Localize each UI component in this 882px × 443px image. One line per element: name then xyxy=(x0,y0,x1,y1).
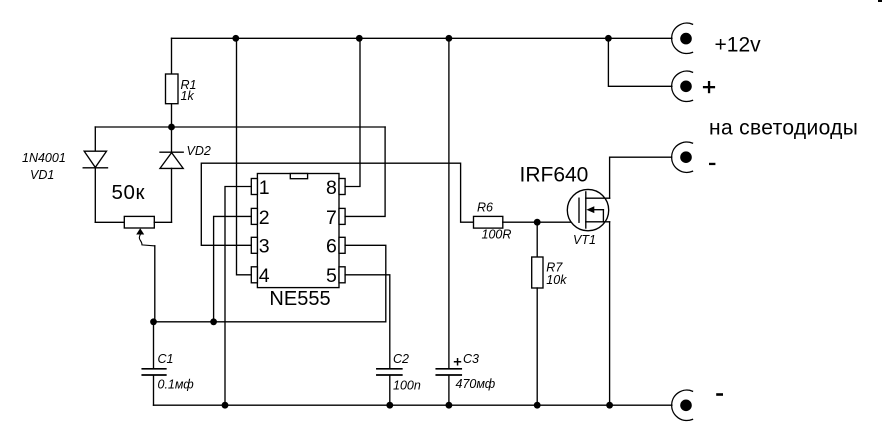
channel bar xyxy=(585,192,587,228)
svg-text:на светодиоды: на светодиоды xyxy=(709,117,858,140)
pin 4 pad xyxy=(251,267,257,283)
svg-text:5: 5 xyxy=(326,265,337,287)
label minus xyxy=(709,163,715,165)
wire +12V rail to plus LED connector xyxy=(608,38,672,86)
capacitor C2 xyxy=(377,352,421,405)
svg-text:10k: 10k xyxy=(546,273,567,287)
capacitor C3 electrolytic xyxy=(436,38,495,405)
resistor R1 xyxy=(166,38,197,127)
node junction C3 wire / rail xyxy=(446,35,453,42)
svg-text:0.1мф: 0.1мф xyxy=(158,378,195,392)
svg-text:+12v: +12v xyxy=(715,33,762,56)
wire pin4 reset to +12V rail xyxy=(237,38,252,274)
pin 1 pad xyxy=(251,179,257,195)
node junction pin1 / ground xyxy=(222,402,229,409)
node junction wiper / C1 xyxy=(150,318,157,325)
wire pin3 output to R6 xyxy=(201,163,473,245)
label minus xyxy=(716,393,723,396)
transistor VT1 IRF640 MOSFET xyxy=(520,164,610,248)
svg-text:C3: C3 xyxy=(463,352,479,366)
corner artifact mark xyxy=(878,0,882,2)
gate bar xyxy=(578,198,580,222)
pin 6 pad xyxy=(339,237,345,253)
svg-text:C1: C1 xyxy=(158,352,174,366)
pin 5 pad xyxy=(339,267,345,283)
node junction pin8 wire / rail xyxy=(356,35,363,42)
pin 2 pad xyxy=(251,208,257,224)
svg-text:1k: 1k xyxy=(181,89,195,103)
connector J4 minus ground socket xyxy=(672,390,723,420)
connector J1 +12v socket xyxy=(672,23,761,56)
pin 8 pad xyxy=(339,179,345,195)
svg-text:4: 4 xyxy=(259,265,270,287)
svg-text:470мф: 470мф xyxy=(456,377,496,391)
node junction MOSFET source / ground xyxy=(606,402,613,409)
resistor R7 xyxy=(532,222,568,405)
node junction R6 / R7 / gate xyxy=(534,219,541,226)
substrate arrow xyxy=(590,209,603,211)
node junction pin4 wire / rail xyxy=(232,35,239,42)
diode VD2 xyxy=(160,127,211,222)
wire pin7 to R1/VD node xyxy=(345,127,385,216)
svg-text:1N4001: 1N4001 xyxy=(22,151,66,165)
NE555 top notch xyxy=(290,174,307,179)
node junction pin2 wire xyxy=(210,318,217,325)
svg-text:2: 2 xyxy=(259,207,270,229)
drain tap xyxy=(586,197,610,199)
svg-text:1: 1 xyxy=(259,177,270,199)
connector J2 plus socket xyxy=(672,71,715,101)
label plus xyxy=(703,86,715,88)
wire pin1 to ground xyxy=(225,187,251,406)
svg-text:C2: C2 xyxy=(393,352,409,366)
svg-text:VT1: VT1 xyxy=(573,233,596,247)
wire pin6 to C1/pot node xyxy=(154,245,386,321)
svg-text:R6: R6 xyxy=(477,201,493,215)
C3 plus polarity mark xyxy=(454,361,461,363)
ground bottom rail xyxy=(154,404,672,406)
svg-text:3: 3 xyxy=(259,236,270,258)
pin 3 pad xyxy=(251,237,257,253)
svg-text:IRF640: IRF640 xyxy=(520,164,589,187)
svg-text:100n: 100n xyxy=(393,379,421,393)
pin 7 pad xyxy=(339,208,345,224)
wire source to ground xyxy=(609,222,611,405)
svg-text:8: 8 xyxy=(326,177,337,199)
source tap xyxy=(586,221,610,223)
resistor R6 xyxy=(474,201,580,242)
wire drain to minus LED connector xyxy=(610,157,672,198)
wire top +12V rail xyxy=(172,37,672,39)
potentiometer wiper arrow xyxy=(136,228,144,234)
node junction +LED branch / rail xyxy=(605,35,612,42)
node junction R1 / VD1 / VD2 / pin7 net xyxy=(168,124,175,131)
svg-text:100R: 100R xyxy=(482,227,512,241)
potentiometer 50k xyxy=(95,181,171,322)
node junction C2 / ground xyxy=(386,402,393,409)
node junction C3 / ground xyxy=(446,402,453,409)
svg-text:50к: 50к xyxy=(112,181,146,204)
wire pin2 to C1 node xyxy=(214,216,252,321)
wire pin8 to +12V rail xyxy=(345,38,360,186)
svg-text:VD1: VD1 xyxy=(30,168,54,182)
svg-text:7: 7 xyxy=(326,207,337,229)
wire node to pin7 branch xyxy=(95,126,385,128)
svg-text:6: 6 xyxy=(326,236,337,258)
svg-text:VD2: VD2 xyxy=(187,144,211,158)
diode VD1 xyxy=(22,127,108,222)
capacitor C1 xyxy=(142,322,194,405)
connector J3 minus socket xyxy=(672,142,716,172)
wire pin5 to C2 xyxy=(345,275,390,369)
svg-text:NE555: NE555 xyxy=(269,288,330,310)
IC U1 NE555 body xyxy=(251,174,345,311)
node junction R7 / ground xyxy=(534,402,541,409)
